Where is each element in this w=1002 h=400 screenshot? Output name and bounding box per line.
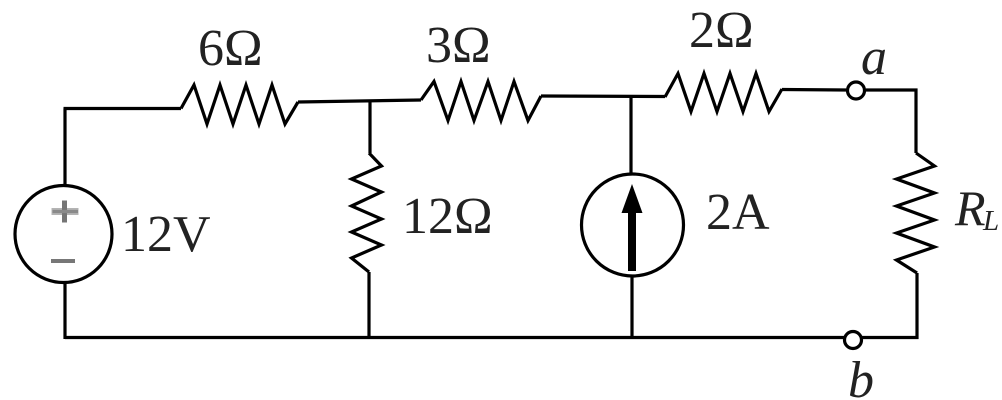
svg-text:b: b — [848, 352, 874, 400]
resistor R 12ohm zigzag (vertical) — [352, 153, 382, 272]
current source I1 circle — [582, 174, 684, 276]
wire: 12-ohm branch from resistor down to bottom rail — [367, 272, 370, 339]
wire: right vertical from corner down to RL resistor — [914, 89, 917, 154]
wire: current source branch from top node down to source — [629, 95, 632, 175]
svg-text:12V: 12V — [121, 206, 211, 263]
label 6-ohm value — [198, 20, 263, 77]
svg-text:a: a — [861, 29, 887, 86]
wire: 12-ohm branch from top node down to resistor — [368, 100, 371, 153]
svg-text:2A: 2A — [706, 184, 770, 241]
voltage source plus sign — [52, 201, 79, 223]
svg-text:3Ω: 3Ω — [426, 17, 491, 74]
label RL — [954, 180, 999, 237]
label node a — [861, 29, 887, 86]
node terminal a (open circle) — [848, 82, 865, 99]
current source arrow (points up) — [622, 184, 643, 271]
svg-text:12Ω: 12Ω — [402, 188, 493, 245]
svg-text:2Ω: 2Ω — [689, 2, 754, 59]
wire: right vertical from RL down to bottom rail — [915, 273, 918, 339]
resistor R 2ohm zigzag — [665, 74, 782, 112]
wire: top segment between 6-ohm and 3-ohm through node — [298, 100, 421, 102]
label 2A value — [706, 184, 770, 241]
wire: current source branch from source down to bottom rail — [630, 275, 633, 339]
wire: left vertical from top rail to voltage source top — [63, 109, 66, 187]
svg-text:R: R — [954, 180, 986, 236]
resistor R 3ohm zigzag — [421, 82, 541, 121]
wire: top-left horizontal segment to 6-ohm resistor — [64, 107, 182, 110]
label 3-ohm value — [426, 17, 491, 74]
resistor R 6ohm zigzag — [181, 85, 298, 124]
voltage source V1 circle — [15, 186, 112, 283]
label 12V value — [121, 206, 211, 263]
label 2-ohm value — [689, 2, 754, 59]
label 12-ohm value — [402, 188, 493, 245]
node terminal b (open circle) — [845, 332, 862, 349]
wire: top-right segment from 2-ohm to corner via terminal a — [782, 88, 918, 92]
label node b — [848, 352, 874, 400]
wire: bottom rail — [65, 283, 919, 339]
svg-text:6Ω: 6Ω — [198, 20, 263, 77]
wire: top segment between 3-ohm and 2-ohm through current source node — [541, 94, 665, 98]
svg-text:L: L — [982, 205, 999, 237]
resistor RL zigzag (vertical) — [897, 153, 935, 273]
voltage source minus sign — [51, 259, 75, 263]
